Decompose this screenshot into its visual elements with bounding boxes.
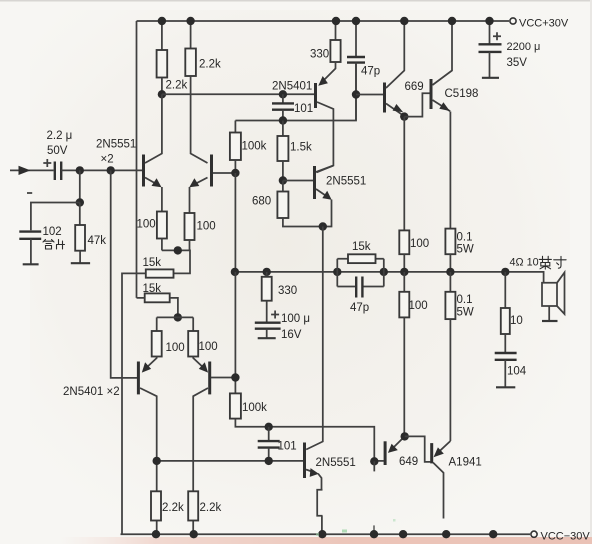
svg-text:47k: 47k [88,235,107,247]
node: lower pair emitter node [174,313,182,321]
svg-text:5W: 5W [457,244,474,256]
wire: Q2 base down to feedback line [234,173,236,272]
svg-text:16V: 16V [281,329,302,341]
svg-text:2.2 μ: 2.2 μ [47,130,73,142]
resistor R 1.5k [282,121,284,137]
node: 649 emitter [401,432,409,440]
wire: 669 emitter to C5198 base [404,93,429,116]
resistor R 100 (Q4 emitter) [192,317,194,331]
wire: tail of first 15k to V- rail [122,273,146,534]
node: left 2.2k / predriver base [158,90,166,98]
svg-text:C5198: C5198 [445,88,479,100]
svg-text:A1941: A1941 [449,457,482,469]
wire: to VAS base [283,180,313,182]
svg-text:669: 669 [405,81,424,93]
transistor Q1 2N5551 (upper diff pair left) [144,94,162,211]
capacitor 2200u 35V [479,21,502,78]
svg-text:2.2k: 2.2k [166,80,188,92]
node: VAS base [279,176,287,184]
svg-text:15k: 15k [143,283,162,295]
svg-text:100: 100 [197,221,216,233]
svg-text:10: 10 [510,315,523,327]
capacitor 100u 16V (feedback) [255,311,281,339]
resistor R 15k (lower tail to V+) [145,293,170,302]
resistor R 15k (upper tail to V-) [146,269,174,277]
svg-text:2.2k: 2.2k [162,502,184,514]
transistor U VAS2 2N5551 (lower) [305,443,322,490]
svg-text:2.2k: 2.2k [199,59,221,71]
capacitor 101 (upper) [279,90,287,98]
transistor Q2 2N5551 (upper diff pair right) [189,76,235,213]
svg-text:0.1: 0.1 [457,232,473,244]
transistor C5198 output [431,21,452,229]
node: lower 101 tap [265,423,273,431]
wire: VCC+30V top rail [137,20,510,22]
node dots on top rail [158,17,166,25]
node: 649 base [370,457,378,465]
scan artifact speck [316,533,319,536]
resistor R 100 (649 emitter to output) [403,272,405,292]
resistor R 2.2k (left, V+ to Q1 collector) [161,21,163,50]
svg-text:100: 100 [199,341,218,353]
resistor R 0.1 5W (lower) [449,272,451,292]
wire: to 102 ceramic cap [31,203,80,231]
svg-text:100: 100 [409,300,428,312]
wire: 669 emitter down to 100 [403,117,405,231]
wire: to 2N5401 predriver base [162,93,314,95]
node dots on output line [231,268,239,276]
wire: left vertical from V+ rail down to 15k tail [136,21,138,298]
label ci-pian (ceramic) [43,240,65,250]
node: Q4 base tap [231,373,239,381]
wire: VAS node line [235,63,356,121]
svg-text:2N5401 ×2: 2N5401 ×2 [63,386,120,398]
wire: down to 47k node [79,170,81,202]
node: 669 emitter [400,112,408,120]
scan artifact speck [342,530,347,533]
svg-text:5W: 5W [457,307,474,319]
resistor R 100k (lower) [234,272,236,394]
wire: VAS emitter chain down to lower VAS collector [306,227,323,450]
svg-text:104: 104 [507,366,527,378]
svg-text:100k: 100k [242,402,267,414]
svg-text:50V: 50V [47,145,68,157]
node [76,198,84,206]
input arrow [19,166,31,175]
svg-text:4Ω 10: 4Ω 10 [510,257,539,269]
resistor R 680 [277,192,288,219]
svg-text:330: 330 [278,285,297,297]
resistor R 10 (zobel) [504,272,506,308]
svg-text:100: 100 [166,342,185,354]
capacitor 47p (feedback) [337,286,384,288]
wire: to 669 base [356,94,383,96]
svg-text:100: 100 [410,238,429,250]
capacitor 47p (rail to VAS node) [355,21,357,57]
ground under 104 [496,386,515,388]
svg-text:47p: 47p [350,302,369,314]
node [279,116,287,124]
transistor Q3 2N5401 (lower diff pair left) [138,357,156,535]
resistor R 2.2k (right, V+ to Q2 collector) [190,21,192,49]
capacitor 102 ceramic [19,232,41,239]
node [153,457,161,465]
svg-text:680: 680 [252,196,271,208]
resistor R 100 (Q1 emitter) [157,212,167,239]
transistor 649 driver [374,436,404,465]
label ying-cun (inch) [539,256,566,269]
wire: upper pair emitter bracket [162,250,190,273]
svg-text:330: 330 [310,49,329,61]
svg-text:1.5k: 1.5k [290,142,312,154]
node: Q2 base [231,169,239,177]
wire: input cap to Q1 base [61,169,142,171]
wire: input lead [10,169,54,171]
resistor R 0.1 5W (upper) [445,229,455,255]
resistor (faded) lower VAS emitter [317,490,322,516]
ground under 47k [71,262,90,264]
capacitor 101 (lower) [268,427,270,441]
wire: output/feedback line [235,272,544,283]
svg-text:649: 649 [399,456,418,468]
svg-text:101: 101 [278,441,297,453]
svg-text:35V: 35V [507,57,528,69]
transistor 2N5401 predriver [316,62,336,173]
svg-text:15k: 15k [352,241,371,253]
polarity tick [27,192,32,194]
svg-text:2N5551: 2N5551 [96,139,136,151]
node [174,246,182,254]
transistor Q4 2N5401 (lower diff pair right) [193,357,235,535]
svg-text:2.2k: 2.2k [200,502,222,514]
svg-text:VCC+30V: VCC+30V [519,18,569,30]
node dots on bottom rail [152,530,160,538]
resistor R 100 (669 emitter to output) [399,230,409,254]
svg-text:102: 102 [43,226,62,238]
svg-text:2N5401: 2N5401 [272,81,312,93]
resistor R 100 (Q2 emitter) [185,213,195,240]
wire: faded stub below 649 base [373,461,375,471]
node: 669 base tap [352,90,360,98]
transistor A1941 output [432,441,451,519]
svg-text:0.1: 0.1 [457,294,473,306]
node: input node dots [76,166,84,174]
scan artifact speck [393,519,396,522]
terminal VCC-30V [531,531,537,537]
svg-text:×2: ×2 [101,154,114,166]
resistor R 2.2k (lower left) [151,491,161,520]
resistor R 330 (predriver emitter) [335,21,337,40]
wire: lower VAS base line [157,460,304,462]
terminal VCC+30V [510,18,516,24]
capacitor 104 (zobel) [495,353,517,360]
speaker 4ohm [542,273,565,322]
ground under 102 [23,263,39,265]
wire: lower emitter bracket [157,316,194,318]
resistor R 100k (upper) [234,121,236,133]
svg-text:15k: 15k [143,257,162,269]
svg-text:100: 100 [137,219,156,231]
wire: VCC-30V bottom rail [121,533,531,535]
resistor R 2.2k (lower right) [188,491,198,520]
resistor R 100 (Q3 emitter) [156,317,158,331]
node [265,457,273,465]
svg-text:VCC−30V: VCC−30V [541,531,591,543]
transistor U VAS 2N5551 [315,166,334,227]
resistor R 15k (feedback) [337,258,384,260]
capacitor C 2.2u input, polarity + [55,162,61,181]
svg-text:100 μ: 100 μ [281,313,310,325]
wire: input node down to lower pair base [111,170,137,378]
node: VAS emitter / 680 [319,222,327,230]
wire: 649 emitter to A1941 base [405,436,431,462]
svg-text:2200 μ: 2200 μ [507,41,541,53]
svg-text:2N5551: 2N5551 [326,176,366,188]
resistor 47k [79,203,81,226]
transistor 669 driver [385,21,405,116]
svg-text:47p: 47p [361,66,380,78]
svg-text:101: 101 [294,103,313,115]
resistor R 330 (feedback shunt) [266,272,268,277]
svg-text:2N5551: 2N5551 [316,457,356,469]
svg-text:100k: 100k [242,141,267,153]
